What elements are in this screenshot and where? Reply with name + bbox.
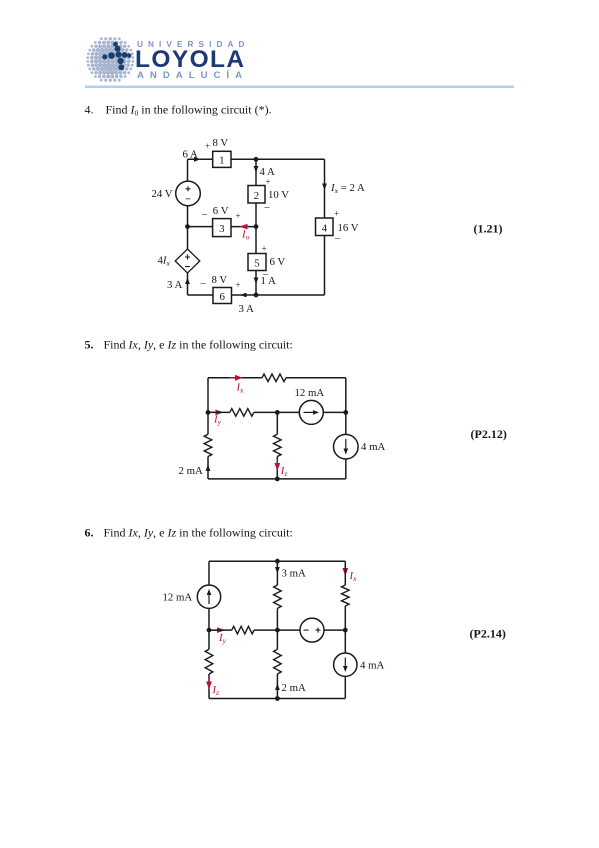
- arrow Iz red c6: [208, 678, 210, 686]
- svg-text:3 A: 3 A: [239, 303, 255, 315]
- wire mid col top: [255, 159, 257, 185]
- resistor c6 left lower: [205, 649, 213, 674]
- source 24V circle: [176, 181, 201, 206]
- svg-text:−: −: [202, 209, 208, 221]
- wire c5 right rail top: [345, 378, 347, 435]
- svg-text:2 mA: 2 mA: [179, 465, 203, 477]
- arrow 6A: [194, 157, 201, 162]
- wire c6 right to 4mA: [344, 630, 346, 653]
- wire left rail to diamond: [187, 227, 189, 249]
- wire box6 to bottom-right: [232, 294, 325, 296]
- node c5 right junction: [343, 410, 348, 415]
- svg-text:24 V: 24 V: [152, 188, 173, 200]
- wire c6 vsource to right: [324, 629, 345, 631]
- svg-text:ANDALUCÍA: ANDALUCÍA: [137, 69, 248, 81]
- svg-text:Iy: Iy: [218, 632, 227, 645]
- wire c6 mid lower lead: [276, 630, 278, 649]
- svg-text:8 V: 8 V: [212, 274, 228, 286]
- logo globe: [86, 37, 134, 82]
- arrow 1A down: [254, 278, 259, 285]
- wire mid to box5: [255, 227, 257, 254]
- wire c5 row2 lead: [208, 411, 230, 413]
- source 4mA circle c5: [334, 434, 359, 459]
- node top-mid junction: [254, 157, 259, 162]
- resistor box 1: [213, 151, 231, 167]
- wire c5 left rail top: [207, 378, 209, 435]
- svg-text:Ix: Ix: [349, 570, 358, 583]
- svg-text:5.Find Ix, Iy, e Iz in the fol: 5.Find Ix, Iy, e Iz in the following cir…: [85, 338, 293, 352]
- wire bottom left to box6: [188, 294, 214, 296]
- wire c6 left to bottom: [208, 674, 210, 699]
- arrow Ix=2A down: [322, 184, 327, 191]
- svg-text:3: 3: [219, 223, 224, 235]
- node mid junction: [254, 224, 259, 229]
- source 12mA circle c6: [197, 585, 220, 608]
- svg-text:+: +: [236, 280, 241, 290]
- svg-text:(P2.14): (P2.14): [470, 627, 506, 641]
- svg-text:12 mA: 12 mA: [295, 387, 325, 399]
- wire c6 bottom: [209, 698, 345, 700]
- wire box2 to mid junction: [255, 203, 257, 227]
- svg-text:Ix = 2 A: Ix = 2 A: [330, 182, 365, 195]
- resistor box 4: [316, 218, 334, 236]
- wire c5 right rail bottom: [345, 459, 347, 479]
- wire box5 to bottom: [255, 271, 257, 296]
- arrow Ix red c5: [229, 377, 240, 379]
- svg-text:+: +: [334, 209, 339, 219]
- svg-text:Iy: Iy: [213, 414, 222, 427]
- svg-text:1: 1: [219, 155, 224, 167]
- wire c6 right top lower lead: [344, 606, 346, 630]
- resistor c5 left vert: [204, 434, 212, 456]
- svg-text:1 A: 1 A: [261, 275, 277, 287]
- resistor c6 mid lower: [274, 649, 282, 674]
- svg-text:4.Find I0 in the following cir: 4.Find I0 in the following circuit (*).: [85, 103, 272, 118]
- resistor c6 mid top: [274, 585, 282, 608]
- svg-text:6.Find Ix, Iy, e Iz in the fol: 6.Find Ix, Iy, e Iz in the following cir…: [85, 526, 293, 540]
- resistor c5 mid vert: [274, 434, 282, 456]
- wire right rail top: [324, 159, 326, 218]
- wire top-left to box1: [188, 158, 213, 160]
- svg-text:3 A: 3 A: [167, 279, 183, 291]
- wire right rail bottom: [324, 236, 326, 296]
- node c6 mid junction: [275, 628, 280, 633]
- svg-text:3 mA: 3 mA: [282, 568, 306, 580]
- wire c5 top left seg: [208, 377, 262, 379]
- wire c5 top right seg: [286, 377, 346, 379]
- node c5 bottom junction: [275, 477, 280, 482]
- resistor box 2: [248, 186, 265, 204]
- svg-text:−: −: [264, 202, 270, 214]
- wire c5 mid col: [276, 412, 278, 434]
- arrow 3A up: [185, 278, 190, 285]
- svg-text:6 V: 6 V: [270, 256, 286, 268]
- svg-text:8 V: 8 V: [213, 137, 229, 149]
- svg-text:4 mA: 4 mA: [361, 441, 385, 453]
- svg-text:16 V: 16 V: [338, 222, 359, 234]
- wire source to mid row: [187, 206, 189, 227]
- wire c6 mid to bottom: [276, 674, 278, 699]
- svg-text:5: 5: [254, 258, 259, 270]
- svg-text:(1.21): (1.21): [474, 222, 503, 236]
- wire c6 row to mid: [254, 629, 277, 631]
- svg-text:6 A: 6 A: [183, 148, 199, 160]
- wire c5 mid col bottom: [276, 457, 278, 479]
- wire c5 row2 to mid: [254, 411, 299, 413]
- svg-text:2: 2: [254, 190, 259, 202]
- svg-text:+: +: [262, 244, 267, 254]
- node left-mid junction: [185, 224, 190, 229]
- arrow 2mA up c6: [275, 684, 280, 691]
- svg-text:4Ix: 4Ix: [158, 255, 171, 268]
- header rule: [85, 86, 514, 88]
- wire c6 left rail top: [208, 561, 210, 585]
- wire c6 top: [209, 560, 345, 562]
- arrow Iy red c6: [212, 629, 222, 631]
- wire box3 to mid junction: [231, 226, 256, 228]
- svg-text:4: 4: [322, 222, 328, 234]
- node c6 top junction: [275, 559, 280, 564]
- svg-text:12 mA: 12 mA: [163, 591, 193, 603]
- wire c6 mid col top lead: [276, 561, 278, 585]
- resistor c6 row: [232, 626, 254, 634]
- svg-text:Iz: Iz: [212, 684, 220, 697]
- arrow Io red: [240, 224, 248, 230]
- resistor c5 row2: [230, 409, 254, 417]
- node c6 bottom junction: [275, 696, 280, 701]
- svg-text:10 V: 10 V: [268, 189, 289, 201]
- wire c6 4mA to bottom: [344, 676, 346, 698]
- wire c5 bottom: [208, 478, 346, 480]
- svg-text:Io: Io: [241, 229, 250, 242]
- svg-text:+: +: [266, 177, 271, 187]
- resistor box 6: [213, 288, 232, 304]
- svg-text:6: 6: [219, 291, 225, 303]
- resistor c5 top: [262, 374, 286, 382]
- arrow 3mA down c6: [276, 561, 278, 570]
- wire c6 left lower lead: [208, 630, 210, 649]
- wire c5 row2 right: [323, 411, 346, 413]
- node c6 left junction: [207, 628, 212, 633]
- source 12mA circle c5: [299, 400, 323, 424]
- arrow Iy red c5: [210, 411, 220, 413]
- svg-text:+: +: [205, 141, 210, 151]
- resistor box 3: [213, 219, 231, 237]
- svg-text:+: +: [236, 211, 241, 221]
- source -+ circle c6: [300, 618, 324, 642]
- svg-text:LOYOLA: LOYOLA: [135, 46, 245, 73]
- arrow bottom 3A left: [240, 293, 247, 298]
- svg-text:2 mA: 2 mA: [282, 682, 306, 694]
- wire c6 source to mid row: [208, 608, 210, 630]
- arrow Iz red c5: [276, 460, 278, 468]
- wire c6 mid top lower lead: [276, 608, 278, 630]
- wire diamond to bottom: [187, 273, 189, 295]
- resistor c6 right top: [342, 585, 350, 606]
- svg-text:−: −: [200, 278, 206, 290]
- wire mid row left: [188, 226, 213, 228]
- svg-text:Ix: Ix: [236, 382, 245, 395]
- svg-text:−: −: [335, 233, 341, 245]
- source 4mA circle c6: [334, 653, 357, 676]
- wire box1 to top-right corner: [231, 158, 325, 160]
- svg-text:(P2.12): (P2.12): [471, 427, 507, 441]
- node c6 right junction: [343, 628, 348, 633]
- dependent source diamond 4Ix: [175, 249, 200, 273]
- resistor box 5: [248, 254, 266, 271]
- wire left rail top: [187, 159, 189, 181]
- arrow Ix red c6: [344, 565, 346, 573]
- wire c6 right col top lead: [344, 561, 346, 585]
- node c5 mid junction: [275, 410, 280, 415]
- arrow 4A down: [254, 166, 259, 173]
- arrow 2mA up c5: [206, 465, 211, 472]
- svg-text:6 V: 6 V: [213, 205, 229, 217]
- wire c6 mid to vsource: [277, 629, 300, 631]
- node bottom-mid junction: [254, 293, 259, 298]
- node c5 left junction: [206, 410, 211, 415]
- svg-text:4 mA: 4 mA: [360, 659, 384, 671]
- svg-text:Iz: Iz: [280, 465, 288, 478]
- wire c5 left rail bottom: [207, 457, 209, 479]
- wire c6 row lead: [209, 629, 232, 631]
